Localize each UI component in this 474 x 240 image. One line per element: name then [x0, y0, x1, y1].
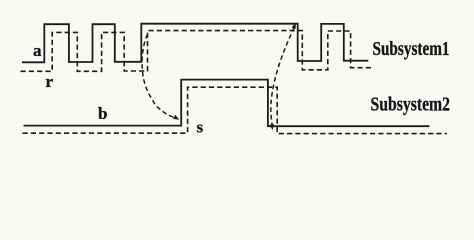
svg-text:Subsystem2: Subsystem2	[371, 94, 451, 116]
svg-text:b: b	[98, 104, 107, 123]
svg-text:r: r	[46, 72, 54, 91]
svg-text:Subsystem1: Subsystem1	[373, 38, 450, 60]
svg-text:s: s	[197, 118, 204, 137]
svg-text:a: a	[33, 41, 42, 60]
